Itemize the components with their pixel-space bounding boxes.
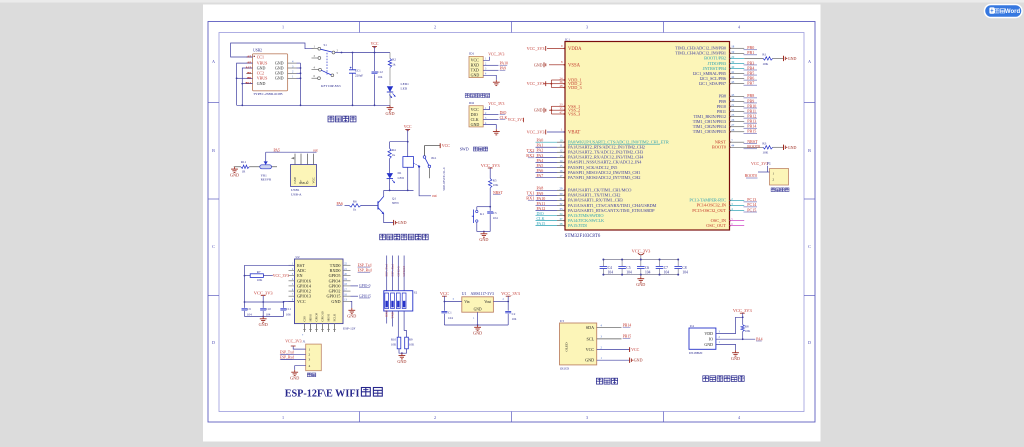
svg-text:GPIO10: GPIO10 xyxy=(321,311,325,322)
svg-text:41: 41 xyxy=(731,70,735,74)
svg-text:VCC_3V3: VCC_3V3 xyxy=(527,46,545,51)
power VDD bus xyxy=(551,79,565,81)
svg-text:1k: 1k xyxy=(392,153,396,157)
svg-text:48: 48 xyxy=(560,84,564,88)
U1 bottom rail xyxy=(444,324,508,326)
wire CC1 to top rail xyxy=(231,43,314,57)
wire caps rail xyxy=(245,301,284,303)
sheet inner border frame xyxy=(219,33,804,412)
svg-text:A5: A5 xyxy=(247,55,251,59)
label download caption xyxy=(307,373,311,377)
svg-text:PB15: PB15 xyxy=(623,335,632,339)
svg-text:C12: C12 xyxy=(378,70,384,74)
svg-text:NRST: NRST xyxy=(493,191,503,195)
svg-text:DIO: DIO xyxy=(500,111,507,115)
svg-text:47: 47 xyxy=(560,110,564,114)
svg-text:10K: 10K xyxy=(493,183,499,187)
svg-text:VBAT: VBAT xyxy=(568,131,580,136)
svg-text:I2C1_SDA/PB7: I2C1_SDA/PB7 xyxy=(699,81,727,86)
ground GND DS18B20 xyxy=(735,350,737,352)
svg-text:32: 32 xyxy=(559,202,563,206)
capacitor C8 104 xyxy=(677,260,679,267)
svg-text:C: C xyxy=(212,244,215,249)
svg-text:R6: R6 xyxy=(353,200,357,204)
svg-text:104: 104 xyxy=(378,75,383,79)
svg-text:U1: U1 xyxy=(462,292,467,296)
svg-text:3: 3 xyxy=(586,415,588,420)
label boot select caption xyxy=(771,188,775,192)
bottom power rail xyxy=(237,104,390,106)
svg-text:VDD_3: VDD_3 xyxy=(568,85,582,90)
svg-text:1: 1 xyxy=(282,25,284,30)
svg-text:C2: C2 xyxy=(512,312,516,316)
MCU left PA8-PA15 external stubs xyxy=(536,189,558,191)
svg-text:13: 13 xyxy=(559,154,563,158)
svg-text:SDA: SDA xyxy=(586,325,594,330)
J1 wires xyxy=(293,346,306,349)
ground GND J1 xyxy=(294,370,296,372)
svg-text:GND: GND xyxy=(585,358,594,363)
svg-text:GND: GND xyxy=(479,237,488,242)
svg-text:104: 104 xyxy=(266,312,271,316)
svg-text:VSS_3: VSS_3 xyxy=(568,112,580,117)
wire JK1 VCC xyxy=(425,146,441,156)
svg-text:31: 31 xyxy=(559,197,563,201)
svg-text:R11: R11 xyxy=(241,160,247,164)
svg-text:33: 33 xyxy=(559,207,563,211)
connector USB2 TYPE-C xyxy=(253,54,288,91)
svg-text:C1: C1 xyxy=(448,311,452,315)
capacitor C4 104 xyxy=(602,260,604,267)
svg-text:1k: 1k xyxy=(392,63,396,67)
svg-text:B5: B5 xyxy=(247,71,251,75)
svg-text:3: 3 xyxy=(586,25,588,30)
svg-text:OLED: OLED xyxy=(560,367,570,371)
label relay caption xyxy=(380,234,386,240)
svg-text:PA5: PA5 xyxy=(274,148,281,152)
svg-text:P1: P1 xyxy=(767,162,771,166)
svg-text:TYPEC-2SBD-6CPB: TYPEC-2SBD-6CPB xyxy=(253,92,283,96)
MCU right OSC stubs xyxy=(730,220,745,222)
svg-text:R7: R7 xyxy=(257,270,261,274)
svg-text:VCC_3V3: VCC_3V3 xyxy=(254,291,274,296)
svg-text:GND: GND xyxy=(534,62,543,67)
svg-text:AMS1117-3V3: AMS1117-3V3 xyxy=(471,292,494,296)
resistor R4 1k xyxy=(389,142,391,149)
svg-text:1: 1 xyxy=(309,347,311,351)
U1 wires xyxy=(444,301,461,303)
svg-text:BOOT0: BOOT0 xyxy=(712,145,727,150)
svg-text:ID1: ID1 xyxy=(469,52,474,56)
schematic sheet xyxy=(203,5,821,442)
svg-text:B: B xyxy=(212,148,215,153)
svg-text:C8: C8 xyxy=(682,266,686,270)
wire VBUS bus xyxy=(237,63,253,105)
svg-text:GPIO9: GPIO9 xyxy=(315,312,319,321)
svg-text:STM32F103C8T6: STM32F103C8T6 xyxy=(565,234,601,239)
svg-text:USB1: USB1 xyxy=(291,188,300,192)
svg-text:R8: R8 xyxy=(745,324,749,328)
svg-text:10K: 10K xyxy=(391,342,397,346)
svg-text:PB15: PB15 xyxy=(747,129,756,134)
U1 GND pin wire xyxy=(477,312,479,325)
svg-text:VCC: VCC xyxy=(586,347,595,352)
net NRST xyxy=(489,188,491,207)
svg-text:19: 19 xyxy=(731,50,735,54)
svg-text:USB-A: USB-A xyxy=(299,182,307,185)
ground flag VSSA pin8 xyxy=(549,64,565,66)
svg-text:BOOT0: BOOT0 xyxy=(747,144,760,149)
ground GND U1 xyxy=(477,325,479,327)
svg-text:GND: GND xyxy=(788,56,797,61)
svg-text:BOOT0: BOOT0 xyxy=(745,174,757,178)
svg-text:J1: J1 xyxy=(303,340,306,344)
svg-text:OSC_OUT: OSC_OUT xyxy=(706,223,726,228)
svg-text:PA9: PA9 xyxy=(500,67,507,71)
row ticks xyxy=(208,102,219,104)
ground GND ESP pin13 xyxy=(351,301,352,308)
ground GND ESP caps xyxy=(245,316,284,318)
svg-text:17: 17 xyxy=(559,174,563,178)
svg-text:VCC: VCC xyxy=(371,42,379,46)
svg-text:ESP_Txd: ESP_Txd xyxy=(358,263,372,267)
DS18B20 wires xyxy=(716,317,743,333)
svg-text:SWD: SWD xyxy=(460,146,469,151)
svg-text:EC1: EC1 xyxy=(355,69,361,73)
svg-text:Word: Word xyxy=(1005,9,1021,15)
svg-text:C11: C11 xyxy=(286,307,291,311)
svg-text:PB7: PB7 xyxy=(747,80,754,85)
svg-text:B12: B12 xyxy=(246,81,252,85)
svg-text:SCL: SCL xyxy=(587,336,595,341)
svg-text:LED1: LED1 xyxy=(401,82,410,86)
wire GND bus right xyxy=(300,63,302,105)
svg-text:CS0: CS0 xyxy=(303,316,307,322)
capacitor C7 104 xyxy=(659,260,661,267)
svg-text:VCC_3V3: VCC_3V3 xyxy=(733,308,753,313)
svg-text:PC15: PC15 xyxy=(747,207,756,212)
svg-text:104: 104 xyxy=(645,270,651,274)
svg-text:C3: C3 xyxy=(493,211,497,215)
svg-text:GND: GND xyxy=(788,145,797,150)
ground GND K1 xyxy=(477,231,490,233)
svg-text:10K: 10K xyxy=(762,151,768,155)
ESP left pin stubs xyxy=(289,264,295,266)
resistor R1 10K BOOT1 pulldown xyxy=(744,57,763,59)
svg-text:C5: C5 xyxy=(626,266,630,270)
svg-text:ESP-12F: ESP-12F xyxy=(343,326,355,330)
svg-text:22: 22 xyxy=(731,108,735,112)
OLED wires xyxy=(597,327,622,329)
svg-text:VCC: VCC xyxy=(440,291,449,296)
svg-text:USB-A: USB-A xyxy=(291,193,302,197)
resistor R10 10K xyxy=(397,311,399,337)
svg-text:104: 104 xyxy=(682,270,688,274)
svg-text:2: 2 xyxy=(434,25,436,30)
svg-text:VCC_3V3: VCC_3V3 xyxy=(751,161,768,166)
svg-text:VCC: VCC xyxy=(442,143,451,148)
svg-text:S1: S1 xyxy=(324,43,328,47)
svg-text:R9: R9 xyxy=(409,337,413,341)
svg-text:14: 14 xyxy=(559,159,563,163)
label power circuit caption xyxy=(328,116,334,122)
svg-text:4: 4 xyxy=(309,364,311,368)
svg-text:GND: GND xyxy=(290,376,299,381)
svg-text:Vin: Vin xyxy=(464,300,469,304)
svg-text:PA7/SPI1_MOSI/ADC12_IN7/TIM3_C: PA7/SPI1_MOSI/ADC12_IN7/TIM3_CH2 xyxy=(568,175,640,180)
svg-text:GND: GND xyxy=(634,358,643,363)
svg-text:R2: R2 xyxy=(392,58,396,62)
wire relay bottom rail xyxy=(384,189,414,191)
svg-text:A9: A9 xyxy=(247,61,251,65)
svg-text:R5: R5 xyxy=(493,178,497,182)
ESP right pin stubs xyxy=(343,264,351,266)
svg-text:A12: A12 xyxy=(245,66,251,70)
svg-text:34: 34 xyxy=(559,212,563,216)
svg-text:IC1: IC1 xyxy=(565,37,570,41)
capacitor C6 104 xyxy=(640,260,642,267)
button K1 xyxy=(477,206,490,208)
svg-text:GPIO-0: GPIO-0 xyxy=(359,284,371,288)
svg-text:ESP_Rxd: ESP_Rxd xyxy=(358,269,372,273)
svg-text:SCLK: SCLK xyxy=(333,313,337,322)
connector USB1 USB-A xyxy=(290,165,316,187)
svg-text:PA15/JTDI: PA15/JTDI xyxy=(568,223,587,228)
svg-text:GND: GND xyxy=(473,331,482,336)
svg-text:2: 2 xyxy=(434,415,436,420)
ID2 wires xyxy=(483,106,489,110)
svg-text:C6: C6 xyxy=(645,266,649,270)
svg-text:VCC_3V3: VCC_3V3 xyxy=(488,102,504,106)
svg-text:VCC_3V3: VCC_3V3 xyxy=(527,129,545,134)
svg-text:ID2: ID2 xyxy=(469,101,474,105)
svg-text:VCC_3V3: VCC_3V3 xyxy=(632,248,652,253)
svg-text:R3: R3 xyxy=(762,142,766,146)
svg-text:10K: 10K xyxy=(409,342,415,346)
svg-text:GND: GND xyxy=(398,220,407,225)
svg-text:U4: U4 xyxy=(690,324,694,328)
svg-text:VCC_3V3: VCC_3V3 xyxy=(488,53,504,57)
svg-text:PA15: PA15 xyxy=(537,221,546,226)
svg-text:GPIO15: GPIO15 xyxy=(359,294,371,298)
svg-text:C7: C7 xyxy=(664,266,668,270)
resistor R8 10K xyxy=(741,325,744,332)
svg-text:1k: 1k xyxy=(353,207,357,211)
svg-text:VCC_3V3: VCC_3V3 xyxy=(285,340,301,344)
svg-text:2: 2 xyxy=(309,353,311,357)
ground GND Q1 emitter flag xyxy=(384,214,394,223)
power flag VCC_3V3 VDDA pin9 xyxy=(547,47,565,49)
svg-text:PA7: PA7 xyxy=(537,173,544,178)
svg-text:LED: LED xyxy=(398,176,405,180)
svg-text:GND: GND xyxy=(275,76,284,81)
svg-text:C9: C9 xyxy=(247,307,251,311)
resistor R7 10K xyxy=(245,264,295,266)
svg-text:37: 37 xyxy=(559,217,563,221)
svg-text:MISO: MISO xyxy=(309,313,313,321)
ESP VCC pin wire xyxy=(283,301,294,307)
ground GND ID2 xyxy=(495,129,497,131)
capacitor C5 104 xyxy=(621,260,623,267)
svg-text:PA6: PA6 xyxy=(337,202,344,206)
svg-text:D: D xyxy=(808,340,811,345)
svg-text:10K: 10K xyxy=(745,329,751,333)
net NRST stub xyxy=(730,141,745,143)
capacitor C10 104 xyxy=(262,306,264,309)
svg-text:29: 29 xyxy=(559,187,563,191)
resistor R3 10K BOOT0 pulldown xyxy=(730,146,764,148)
svg-text:12: 12 xyxy=(559,149,563,153)
ground GND S2 resistors xyxy=(399,349,407,353)
svg-text:VCC_3V3: VCC_3V3 xyxy=(481,163,501,168)
svg-text:GND: GND xyxy=(534,108,543,113)
svg-text:JK1: JK1 xyxy=(431,156,437,160)
svg-text:VCC: VCC xyxy=(297,299,306,304)
capacitor C11 106 xyxy=(282,306,284,309)
svg-text:U2: U2 xyxy=(296,255,300,259)
svg-text:40: 40 xyxy=(731,65,735,69)
wire GND bus left xyxy=(242,68,252,105)
svg-text:RX2: RX2 xyxy=(526,153,534,158)
svg-text:GND: GND xyxy=(347,314,356,319)
power flag VBAT pin1 xyxy=(547,131,565,133)
svg-text:106: 106 xyxy=(286,312,291,316)
svg-text:1: 1 xyxy=(282,415,284,420)
svg-text:CLK: CLK xyxy=(500,116,508,120)
svg-text:TIM1_CH3N/PB15: TIM1_CH3N/PB15 xyxy=(693,129,727,134)
svg-text:B: B xyxy=(808,148,811,153)
svg-text:RX1: RX1 xyxy=(526,196,534,201)
svg-text:out: out xyxy=(313,149,318,153)
svg-text:104: 104 xyxy=(626,270,632,274)
svg-text:CC1: CC1 xyxy=(257,54,264,59)
cap bank rails xyxy=(603,259,678,261)
svg-text:10: 10 xyxy=(559,139,563,143)
MCU right PB stubs group2 xyxy=(730,95,745,97)
svg-text:ESP-12F\E WIFI: ESP-12F\E WIFI xyxy=(285,388,360,399)
capacitor C9 104 xyxy=(244,306,246,309)
svg-text:D1: D1 xyxy=(398,171,402,175)
svg-text:27: 27 xyxy=(731,123,735,127)
svg-text:VDDA: VDDA xyxy=(568,47,582,52)
svg-text:C4: C4 xyxy=(608,266,612,270)
svg-text:R4: R4 xyxy=(392,148,396,152)
capacitor C12 104 xyxy=(374,53,376,72)
svg-text:VCC_3V3: VCC_3V3 xyxy=(527,81,545,86)
svg-text:K1: K1 xyxy=(480,212,484,216)
ground GND R11 xyxy=(234,167,236,169)
MCU right PB stubs group1 xyxy=(730,47,745,49)
svg-text:20: 20 xyxy=(731,55,735,59)
column ticks xyxy=(359,22,361,33)
svg-text:MOSI: MOSI xyxy=(327,314,331,322)
svg-text:VCC: VCC xyxy=(404,125,412,129)
svg-text:GND: GND xyxy=(257,81,266,86)
capacitor EC1 220uF electrolytic xyxy=(352,53,354,70)
svg-text:26: 26 xyxy=(731,118,735,122)
svg-text:28: 28 xyxy=(731,128,735,132)
svg-text:VDD: VDD xyxy=(704,331,713,336)
svg-text:15: 15 xyxy=(559,164,563,168)
svg-text:GND: GND xyxy=(704,342,713,347)
svg-text:DS18B20: DS18B20 xyxy=(689,351,703,355)
svg-text:U3: U3 xyxy=(560,319,564,323)
svg-text:C10: C10 xyxy=(266,307,272,311)
svg-text:GND: GND xyxy=(385,111,394,116)
svg-text:GND: GND xyxy=(293,176,297,183)
svg-text:PA4: PA4 xyxy=(756,337,763,341)
svg-text:out: out xyxy=(432,194,437,198)
S2 bottom wires xyxy=(386,311,388,324)
label temperature caption xyxy=(703,376,709,382)
svg-text:USB2: USB2 xyxy=(253,49,262,53)
LED1 xyxy=(387,86,393,92)
svg-text:OLED: OLED xyxy=(565,342,569,352)
svg-text:10K: 10K xyxy=(257,278,263,282)
ground GND ID1 xyxy=(495,80,497,82)
svg-text:D: D xyxy=(212,340,215,345)
svg-text:GND: GND xyxy=(331,299,340,304)
svg-text:RESVR: RESVR xyxy=(261,177,272,181)
svg-text:LED: LED xyxy=(401,87,408,91)
svg-text:VBUS: VBUS xyxy=(257,76,268,81)
svg-text:NPN: NPN xyxy=(392,201,399,205)
ground GND cap bank xyxy=(640,275,642,277)
svg-text:GND: GND xyxy=(474,307,482,311)
svg-text:R10: R10 xyxy=(391,337,397,341)
svg-text:VCC_3V3: VCC_3V3 xyxy=(508,118,524,122)
svg-text:GND: GND xyxy=(275,65,284,70)
svg-text:38: 38 xyxy=(559,222,563,226)
svg-text:GND: GND xyxy=(259,322,268,327)
sheet outer border frame xyxy=(208,22,815,423)
svg-text:25: 25 xyxy=(731,113,735,117)
capacitor C3 104 xyxy=(489,207,491,211)
svg-text:GND: GND xyxy=(731,356,740,361)
svg-text:GND: GND xyxy=(257,65,266,70)
svg-text:VCC_3V3: VCC_3V3 xyxy=(501,291,521,296)
svg-text:ESP_Txd: ESP_Txd xyxy=(280,351,294,355)
svg-text:Vout: Vout xyxy=(484,300,491,304)
resistor R2 1k xyxy=(389,53,391,59)
svg-text:45: 45 xyxy=(731,93,735,97)
svg-text:A: A xyxy=(808,59,811,64)
diode D1 LED xyxy=(387,173,393,179)
svg-text:S2: S2 xyxy=(414,291,418,295)
svg-text:PC15-OSC32_OUT: PC15-OSC32_OUT xyxy=(692,208,726,213)
svg-text:43: 43 xyxy=(731,80,735,84)
svg-text:PA10: PA10 xyxy=(500,62,508,66)
svg-text:SRD-05VDC-SL-C: SRD-05VDC-SL-C xyxy=(442,167,446,191)
svg-text:46: 46 xyxy=(731,98,735,102)
svg-text:TXD: TXD xyxy=(390,311,394,318)
svg-text:21: 21 xyxy=(731,103,735,107)
svg-text:B9: B9 xyxy=(247,76,251,80)
svg-text:11: 11 xyxy=(559,144,562,148)
svg-text:VCC: VCC xyxy=(631,347,640,352)
svg-text:44: 44 xyxy=(731,144,735,148)
connector JK1 xyxy=(423,156,426,159)
svg-text:18: 18 xyxy=(731,45,735,49)
svg-text:PB1: PB1 xyxy=(747,50,754,55)
resistor R5 10K xyxy=(489,179,492,188)
wire S1 to rail xyxy=(335,52,390,54)
wire PA5 out xyxy=(265,152,267,161)
svg-text:GND: GND xyxy=(397,359,406,364)
svg-text:104: 104 xyxy=(448,316,453,320)
svg-text:104: 104 xyxy=(664,270,670,274)
svg-text:A: A xyxy=(212,59,215,64)
